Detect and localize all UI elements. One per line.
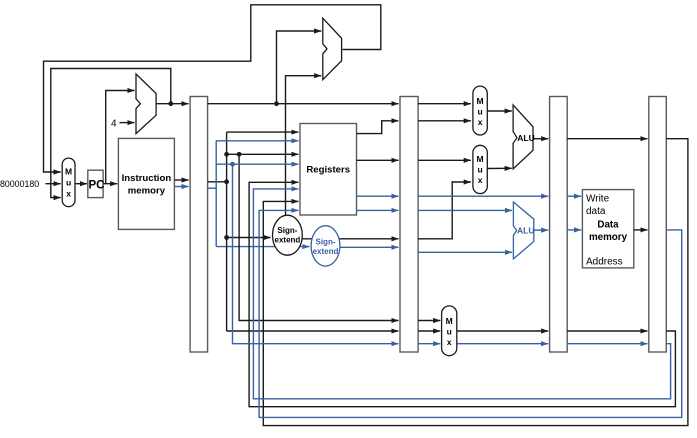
svg-text:Registers: Registers — [306, 165, 350, 176]
wire: vertical A bottom to ID/EX — [227, 330, 399, 332]
svg-text:Sign-: Sign- — [277, 226, 297, 235]
adder ADD2 for branch target — [323, 18, 342, 79]
wire: PC mux output to PC — [75, 183, 87, 185]
svg-text:memory: memory — [128, 186, 166, 197]
op-amp style ALU (black) — [513, 105, 533, 169]
svg-text:M: M — [446, 316, 453, 326]
wire: vertical C blue write-register field to ID/EX — [233, 164, 399, 344]
wire: PC+4 from IF/ID to ID/EX — [208, 103, 399, 105]
wire: read data 1 from ID/EX to mux1 — [418, 120, 471, 122]
wire: PC+4 up to adder2 top input — [277, 31, 322, 104]
wire: store data blue ID/EX to EX/MEM — [418, 195, 548, 197]
svg-text:memory: memory — [589, 232, 628, 243]
wire: ALU result EX/MEM to MEM/WB — [567, 138, 647, 140]
svg-text:PC: PC — [89, 179, 105, 191]
pipeline register IF/ID — [190, 97, 208, 353]
svg-text:u: u — [447, 327, 452, 337]
wire: write register number EX/MEM to MEM/WB — [567, 330, 647, 332]
node: PC+4 junction to adder2 — [274, 101, 279, 106]
svg-text:x: x — [478, 117, 483, 127]
PC box — [88, 170, 103, 197]
wire: read register 2 (black) into registers — [227, 153, 299, 155]
wire: PC+4 loop back to PC mux input 3 — [51, 69, 171, 198]
wire: instruction (black) from memory into IF/ID — [174, 179, 188, 181]
svg-text:u: u — [477, 107, 482, 117]
node: instruction junction on A from IF/ID — [224, 179, 229, 184]
wire: blue instruction from IF/ID — [208, 187, 217, 189]
wire: constant 4 into adder1 — [120, 122, 135, 124]
wire: registers read data 4 (blue) into ID/EX — [357, 209, 399, 211]
pipeline register ID/EX — [400, 97, 418, 353]
svg-text:Address: Address — [586, 256, 623, 267]
wire: ID/EX to mux5 input 2 — [418, 330, 440, 332]
svg-text:ALU: ALU — [517, 133, 534, 143]
sign-extend (black) — [273, 215, 303, 255]
mux M5 write register select — [442, 306, 457, 356]
wire: read register 3 (blue) into registers — [216, 140, 298, 142]
mux M1 ALU first operand — [473, 86, 487, 135]
wire: instruction (blue) from memory into IF/ID — [174, 186, 188, 188]
node: instruction junction on A at read2 — [224, 152, 229, 157]
data memory box — [582, 190, 633, 268]
wire: PC+4 from ID/EX to mux1 — [418, 103, 471, 105]
svg-text:M: M — [477, 154, 484, 164]
svg-text:extend: extend — [313, 247, 339, 256]
svg-text:M: M — [65, 167, 72, 177]
wire: black sign-extend output to ID/EX — [302, 238, 399, 240]
wire: vertical A instruction distribution — [226, 132, 228, 331]
svg-text:extend: extend — [275, 235, 301, 244]
wire: PC value up to adder1 top input — [106, 91, 135, 184]
wire: mux1 output to ALU — [487, 110, 512, 112]
wire: write data feedback (black) from MEM/WB to registers — [263, 139, 688, 426]
wire: read register 1 (black) into registers — [227, 131, 299, 133]
wire: vertical B to ID/EX write-register field — [239, 154, 398, 320]
wire: address blue EX/MEM to data memory — [567, 229, 581, 231]
wire: immediate jog from ID/EX up to mux2 — [418, 182, 471, 239]
svg-text:x: x — [478, 175, 483, 185]
wire: mux2 output to ALU — [487, 167, 512, 169]
wire: read data 2 from ID/EX to mux2 — [418, 159, 471, 161]
wire: blue write register mux5 to EX/MEM — [457, 343, 549, 345]
registers box — [300, 124, 357, 216]
wire: mux5 output to EX/MEM — [457, 330, 549, 332]
wire: registers read data 3 (blue) into ID/EX — [357, 195, 399, 197]
wire: ALU result into EX/MEM — [533, 138, 548, 140]
wire: branch target loop from adder2 output to PC mux input 1 — [44, 5, 381, 172]
wire: blue instruction vertical — [215, 141, 217, 247]
wire: memory read data into MEM/WB — [634, 229, 648, 231]
wire: blue immediate ID/EX to blue ALU — [418, 251, 512, 253]
mux M0 at PC — [62, 158, 75, 207]
wire: registers read data 2 into ID/EX — [357, 159, 399, 161]
svg-text:x: x — [66, 189, 71, 199]
svg-text:x: x — [447, 337, 452, 347]
svg-text:data: data — [586, 206, 606, 217]
instruction memory box — [118, 138, 174, 229]
svg-text:Data: Data — [597, 219, 619, 230]
wire: store data blue EX/MEM to data memory write data — [567, 195, 581, 197]
wire: blue ALU result into EX/MEM — [534, 229, 549, 231]
wire: sign-extend offset up to adder2 bottom input — [286, 76, 322, 216]
node: PC+4 junction at adder1 output — [168, 101, 173, 106]
pipeline register EX/MEM — [550, 97, 568, 353]
wire: read register 4 (blue) into registers — [216, 163, 298, 165]
svg-text:80000180: 80000180 — [0, 179, 39, 189]
sign-extend (blue) — [311, 226, 340, 266]
wire: instruction from IF/ID to node A — [208, 181, 227, 183]
wire: write register number feedback (black) from MEM/WB to registers — [249, 182, 675, 406]
wire: instruction field into black sign-extend — [227, 237, 271, 239]
wire: blue write register ID/EX through mux5 to EX/MEM — [418, 343, 440, 345]
svg-text:ALU: ALU — [517, 225, 534, 235]
svg-text:Instruction: Instruction — [122, 173, 172, 184]
svg-text:u: u — [477, 165, 482, 175]
node: junction B on read2 line — [237, 152, 242, 157]
wire: load data feedback (blue) from MEM/WB to registers — [259, 210, 682, 417]
svg-text:Sign-: Sign- — [316, 238, 336, 247]
svg-text:Write: Write — [586, 193, 610, 204]
pipeline register MEM/WB — [649, 97, 667, 353]
wire: blue instruction field into blue sign-extend — [216, 246, 309, 248]
wire: ID/EX to mux5 input 1 — [418, 320, 440, 322]
wire: registers read data 1 jog into ID/EX — [357, 121, 399, 134]
svg-text:u: u — [66, 178, 71, 188]
wire: PC output to instruction memory — [103, 183, 117, 185]
wire: adder1 output PC+4 into IF/ID — [156, 103, 189, 105]
mux M2 ALU second operand — [473, 145, 487, 193]
wire: blue sign-extend output to ID/EX — [340, 246, 399, 248]
svg-text:M: M — [477, 96, 484, 106]
wire: write register number feedback (blue) from MEM/WB to registers — [253, 189, 670, 399]
wire: blue operand ID/EX to blue ALU — [418, 209, 512, 211]
ALU (blue) — [513, 202, 533, 259]
svg-text:4: 4 — [111, 118, 117, 129]
wire: blue write register EX/MEM to MEM/WB — [567, 343, 647, 345]
node: instruction junction on A at sign-extend — [224, 235, 229, 240]
node: blue junction C — [230, 162, 235, 167]
adder ADD1 for PC+4 — [136, 74, 156, 134]
wire: 80000180 constant into PC mux input 2 — [46, 183, 61, 185]
